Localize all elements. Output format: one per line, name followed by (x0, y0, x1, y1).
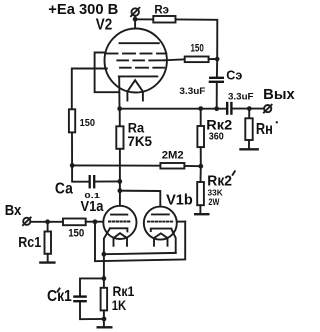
V1a heater (114, 233, 128, 246)
wire top rail left (135, 18, 153, 20)
resistor Rк2' (200, 166, 202, 182)
V1a anode bar (111, 214, 127, 216)
resistor Rк2 (200, 109, 202, 126)
svg-text:3.3uF: 3.3uF (179, 86, 205, 97)
resistor Ra (119, 109, 121, 127)
svg-text:Са: Са (55, 181, 73, 198)
ground Rк2' (194, 213, 210, 215)
capacitor Ск1 (73, 297, 87, 302)
wire Rк2 to junction (200, 147, 202, 166)
node supply junction (133, 17, 138, 22)
svg-text:7K5: 7K5 (127, 133, 152, 149)
wire V2 cathode lead (118, 76, 120, 108)
wire Rк1 to ground (103, 310, 105, 326)
wire left branch from g1 (72, 69, 107, 110)
ground Rc1 (39, 261, 55, 263)
wire down to Сэ (216, 59, 218, 77)
wire Са to anode node (96, 180, 120, 182)
V2 heater (127, 80, 142, 100)
wire cathode bus (104, 253, 176, 254)
V1a cathode lead (104, 229, 110, 255)
wire 150 down to Ca corner (72, 132, 88, 181)
svg-text:Ск1: Ск1 (47, 288, 72, 305)
terminal Вых (264, 105, 271, 112)
svg-text:Rк2: Rк2 (206, 118, 232, 133)
tube V2 envelope (105, 29, 167, 93)
V2 grid row3 dashes (120, 67, 164, 69)
terminal Вх (23, 218, 30, 225)
ground Rк1 (97, 326, 113, 328)
svg-text:Rэ: Rэ (154, 2, 169, 16)
wire V2 anode lead (134, 19, 136, 43)
V1b cathode bar (151, 229, 172, 231)
wire input to 150 (30, 221, 63, 223)
capacitor Са (90, 175, 95, 188)
svg-text:1K: 1K (112, 298, 127, 313)
wire 2M2 to divider (184, 165, 200, 167)
svg-text:2М2: 2М2 (162, 150, 184, 162)
resistor Rэ (153, 16, 175, 23)
wire cap to Вых (233, 108, 264, 110)
svg-text:150: 150 (191, 43, 204, 55)
resistor 150 left (69, 109, 75, 132)
node screen junction (215, 57, 220, 62)
wire g3-cathode strap (95, 52, 120, 92)
wire Rк2' to ground (199, 205, 201, 213)
svg-text:+Ea 300 В: +Ea 300 В (48, 2, 118, 18)
svg-text:Rc1: Rc1 (18, 235, 41, 251)
V1b grid stub (177, 221, 185, 223)
wire 150 to V1a grid (86, 221, 108, 223)
wire Ra to V1 anodes (119, 149, 121, 215)
wire terminal to rail (134, 16, 136, 20)
resistor 150 input (63, 219, 86, 226)
supply terminal +Ea (131, 8, 139, 16)
wire screen resistor to vertical (209, 58, 218, 60)
V1b cathode lead (171, 229, 175, 253)
resistor Rк1 (101, 288, 108, 311)
node 2M2 left junction (70, 163, 75, 168)
wire Сэ to output line (216, 84, 218, 109)
resistor 2М2 (160, 163, 184, 169)
V2 cathode bar (119, 75, 158, 77)
svg-text:2W: 2W (208, 197, 219, 207)
wire Rc1 to ground (47, 254, 49, 262)
svg-text:V1b: V1b (166, 191, 193, 208)
V2 grid row2 dashes (117, 59, 164, 61)
capacitor Ск1 loop top (80, 278, 104, 295)
artifact dash right of Rн (276, 121, 278, 123)
tube V1a envelope (103, 206, 136, 239)
V2 grid row1 dashes (107, 53, 167, 55)
wire 2M2 line (72, 164, 160, 166)
svg-text:3.3uF: 3.3uF (228, 92, 254, 102)
V1b heater (154, 233, 168, 245)
V1b grid dotted (148, 221, 173, 223)
svg-text:Вх: Вх (5, 203, 22, 219)
svg-text:Rк1: Rк1 (113, 283, 135, 299)
node anode link junction (118, 188, 123, 193)
svg-text:V2: V2 (96, 16, 113, 33)
resistor 150 screen (185, 57, 209, 63)
svg-text:Вых: Вых (263, 87, 295, 103)
svg-text:150: 150 (80, 118, 96, 129)
svg-text:Сэ: Сэ (226, 67, 242, 82)
svg-text:150: 150 (68, 228, 84, 240)
svg-text:Rн: Rн (256, 121, 273, 138)
wire rail right + corner down (176, 19, 218, 59)
wire cathode down (103, 254, 105, 288)
resistor Rн (248, 109, 250, 119)
capacitor Ск1 loop bottom (80, 302, 104, 319)
ground Rн (239, 148, 259, 150)
V1a grid dotted (109, 221, 131, 223)
node Ca junction (117, 179, 122, 184)
wire Rн to ground (248, 140, 250, 148)
wire screen line from tube (164, 58, 185, 61)
V2 anode bar (120, 42, 159, 44)
resistor Rc1 (47, 222, 49, 232)
wire anode link to V1b (120, 191, 160, 215)
capacitor 3.3uF output (227, 102, 231, 115)
capacitor Сэ (209, 78, 224, 82)
tube V1b envelope (144, 207, 177, 240)
svg-text:360: 360 (209, 132, 224, 143)
V1b anode bar (152, 213, 169, 215)
wire grid U loop (95, 222, 185, 262)
V1a cathode bar (110, 228, 128, 231)
wire output line (120, 108, 226, 110)
svg-text:V1a: V1a (81, 199, 105, 215)
